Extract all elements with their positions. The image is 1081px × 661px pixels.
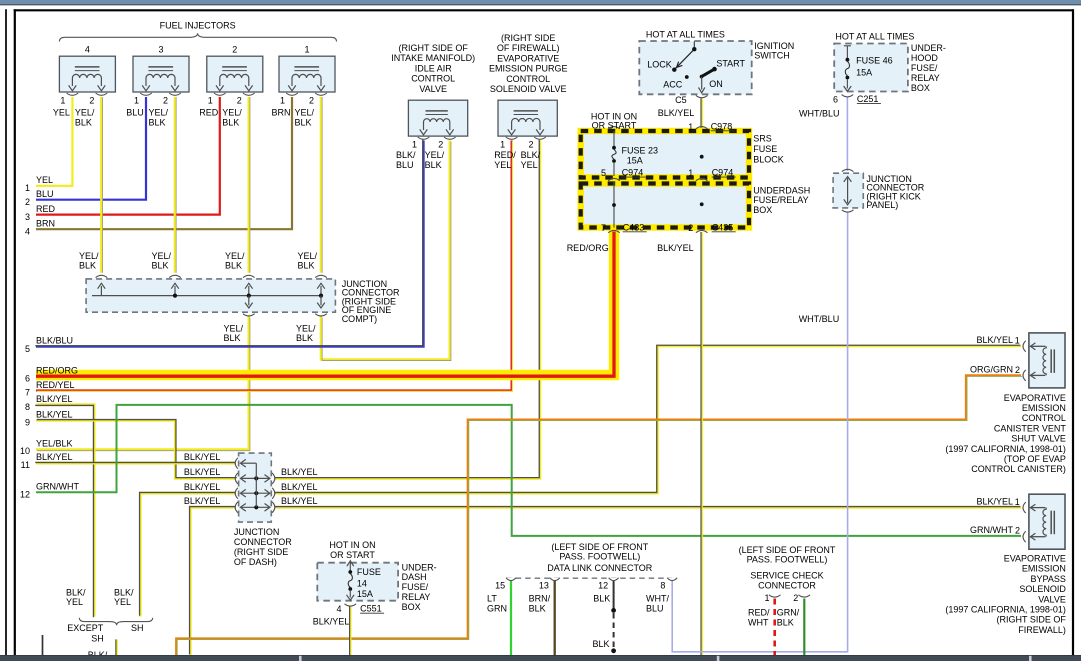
label IGNITION SWITCH: [754, 41, 794, 60]
wire BRN/BLK DLC pin 13: [553, 581, 556, 656]
svg-text:2: 2: [25, 197, 30, 207]
svg-text:8: 8: [25, 402, 30, 412]
label SRS FUSE BLOCK: [753, 133, 784, 164]
svg-text:(RIGHT SIDE: (RIGHT SIDE: [501, 33, 555, 43]
svg-text:YEL/: YEL/: [298, 251, 318, 261]
svg-text:IDLE AIR: IDLE AIR: [415, 63, 453, 73]
underdash fuse/relay box: [581, 184, 749, 228]
svg-text:(RIGHT SIDE OF: (RIGHT SIDE OF: [997, 615, 1067, 625]
svg-text:VALVE: VALVE: [419, 84, 447, 94]
svg-text:BLK: BLK: [225, 261, 242, 271]
wire stub bottom left: [42, 635, 44, 655]
svg-text:C551: C551: [360, 604, 382, 614]
wire BLK/YEL C551 down: [348, 606, 351, 656]
svg-text:14: 14: [357, 578, 367, 588]
labels service check wire colors: [748, 608, 800, 628]
svg-text:RED/ORG: RED/ORG: [36, 366, 78, 376]
svg-text:BLK/BLU: BLK/BLU: [36, 336, 73, 346]
wire YEL/BLK injector4 pin2 to junction: [101, 97, 102, 273]
svg-text:YEL: YEL: [494, 160, 511, 170]
labels fuse 23: [622, 145, 659, 165]
wire BLK/YEL dash junction to purge valve pin 2: [274, 140, 540, 479]
label UNDERDASH FUSE/RELAY BOX: [753, 185, 810, 215]
labels DLC pins: [495, 580, 665, 590]
svg-text:EVAPORATIVE: EVAPORATIVE: [497, 53, 559, 63]
diagram frame left border: [14, 9, 16, 655]
svg-text:2: 2: [163, 96, 168, 106]
svg-text:1: 1: [134, 96, 139, 106]
svg-text:EXCEPT: EXCEPT: [67, 623, 104, 633]
svg-text:2: 2: [232, 44, 237, 54]
SRS right wire connectors: [696, 127, 708, 233]
data link connector: [506, 578, 677, 581]
svg-text:5: 5: [25, 344, 30, 354]
svg-text:1: 1: [500, 140, 505, 150]
svg-text:4: 4: [85, 44, 90, 54]
svg-text:2: 2: [528, 140, 533, 150]
svg-text:6: 6: [25, 374, 30, 384]
svg-text:FUSE: FUSE: [357, 567, 381, 577]
labels DLC wire colors: [487, 594, 669, 614]
svg-text:FUSE 23: FUSE 23: [622, 145, 659, 155]
svg-text:CANISTER VENT: CANISTER VENT: [994, 423, 1067, 433]
svg-text:BOX: BOX: [402, 602, 421, 612]
svg-text:SH: SH: [91, 634, 104, 644]
svg-text:C974: C974: [712, 168, 734, 178]
svg-text:1: 1: [60, 96, 65, 106]
svg-text:4: 4: [336, 604, 341, 614]
svg-text:BLK: BLK: [295, 118, 312, 128]
svg-text:WHT: WHT: [748, 618, 769, 628]
svg-text:C978: C978: [711, 121, 733, 131]
svg-text:CONTROL: CONTROL: [506, 74, 550, 84]
svg-text:UNDER-: UNDER-: [911, 43, 946, 53]
label UNDER-HOOD FUSE/RELAY BOX: [911, 43, 946, 93]
labels IAC wire colors: [396, 150, 445, 170]
svg-text:C435: C435: [712, 222, 734, 232]
connector C551: [360, 604, 384, 614]
svg-text:1: 1: [304, 44, 309, 54]
evap bypass solenoid valve: [1023, 494, 1065, 549]
svg-text:3: 3: [25, 212, 30, 222]
svg-text:DASH: DASH: [402, 572, 427, 582]
fuse 23 and SRS left wire: [608, 127, 620, 233]
labels injector 3 wire colors: [126, 107, 168, 127]
svg-text:UNDERDASH: UNDERDASH: [753, 185, 810, 195]
wire BLK/YEL ignition C5 to C978: [700, 98, 703, 129]
wire BLK/YEL C435 down to bottom: [700, 232, 703, 655]
svg-text:BLK: BLK: [222, 118, 239, 128]
labels fuse 14: [357, 567, 381, 599]
connector C978: [711, 121, 735, 131]
svg-text:YEL/: YEL/: [296, 323, 316, 333]
svg-text:ON: ON: [709, 79, 723, 89]
svg-text:2: 2: [1015, 365, 1020, 375]
svg-text:RELAY: RELAY: [911, 73, 940, 83]
svg-text:RED/: RED/: [748, 608, 770, 618]
wire YEL/BLK injector2 pin2 to junction: [249, 97, 250, 273]
svg-text:BLU: BLU: [126, 107, 144, 117]
svg-text:WHT/BLU: WHT/BLU: [799, 108, 840, 118]
svg-text:RED: RED: [36, 204, 56, 214]
svg-text:ORG/GRN: ORG/GRN: [970, 365, 1013, 375]
svg-text:RED/ORG: RED/ORG: [567, 243, 609, 253]
svg-text:YEL/: YEL/: [224, 323, 244, 333]
label junction connector right side of dash: [234, 527, 292, 567]
bottom dark bar: [0, 655, 1081, 661]
svg-text:YEL/: YEL/: [425, 150, 445, 160]
svg-text:BLK/: BLK/: [521, 150, 541, 160]
svg-text:1: 1: [280, 96, 285, 106]
wire BLK/YEL dash junction to bypass valve pin 1: [274, 505, 1021, 508]
wire GRN/WHT row 12 to bypass valve pin 2: [36, 405, 1021, 536]
wire BLK/YEL row 8 to brace: [35, 405, 94, 618]
svg-text:RED/YEL: RED/YEL: [36, 380, 75, 390]
svg-text:OF FIREWALL): OF FIREWALL): [497, 43, 560, 53]
svg-text:YEL/: YEL/: [79, 251, 99, 261]
svg-text:7: 7: [25, 388, 30, 398]
svg-text:(1997 CALIFORNIA, 1998-01): (1997 CALIFORNIA, 1998-01): [945, 605, 1066, 615]
svg-text:12: 12: [20, 489, 30, 499]
svg-text:PASS. FOOTWELL): PASS. FOOTWELL): [747, 554, 828, 564]
svg-text:BLK/YEL: BLK/YEL: [976, 335, 1013, 345]
svg-text:15A: 15A: [627, 155, 643, 165]
svg-text:CONNECTOR: CONNECTOR: [234, 537, 292, 547]
junction connector engine compartment: [86, 275, 335, 316]
labels EXCEPT SH: [67, 623, 143, 643]
labels BLK/YEL above brace: [66, 587, 134, 607]
svg-text:OF DASH): OF DASH): [234, 557, 277, 567]
svg-text:BLK: BLK: [296, 333, 313, 343]
svg-text:C5: C5: [675, 95, 687, 105]
svg-text:CONTROL: CONTROL: [411, 74, 455, 84]
svg-text:2: 2: [89, 96, 94, 106]
svg-text:SH: SH: [131, 623, 144, 633]
svg-text:PASS. FOOTWELL): PASS. FOOTWELL): [559, 551, 640, 561]
svg-text:YEL/: YEL/: [149, 107, 169, 117]
fuel injector 1: [279, 44, 335, 105]
svg-text:BLK/: BLK/: [66, 587, 86, 597]
svg-text:WHT/BLU: WHT/BLU: [799, 314, 840, 324]
svg-text:BLK/YEL: BLK/YEL: [36, 452, 73, 462]
node row 8 BLK/YEL: [25, 394, 73, 412]
wire BLU injector3 pin1 to row 2: [36, 97, 146, 200]
evap canister vent shut valve: [1023, 333, 1065, 388]
svg-text:BLK: BLK: [149, 118, 166, 128]
svg-text:SRS: SRS: [753, 133, 772, 143]
node row 7 RED/YEL: [25, 380, 75, 398]
svg-text:2: 2: [237, 96, 242, 106]
wire GRN/BLK service check pin 2: [803, 599, 805, 656]
svg-text:INTAKE MANIFOLD): INTAKE MANIFOLD): [391, 53, 475, 63]
svg-text:15A: 15A: [357, 589, 373, 599]
svg-text:YEL/: YEL/: [222, 107, 242, 117]
label SERVICE CHECK CONNECTOR: [750, 570, 823, 590]
diagram frame right border: [1072, 9, 1074, 655]
svg-text:(TOP OF EVAP: (TOP OF EVAP: [1004, 454, 1066, 464]
svg-text:2: 2: [793, 593, 798, 603]
wire WHT/BLU C251 to kick junction: [846, 97, 848, 172]
svg-text:YEL: YEL: [521, 160, 538, 170]
svg-text:START: START: [716, 59, 745, 69]
svg-text:11: 11: [21, 460, 30, 470]
under-dash fuse 14 box: [317, 561, 398, 606]
svg-text:RED: RED: [199, 107, 219, 117]
label UNDER-DASH FUSE/RELAY BOX: [402, 562, 437, 612]
svg-text:BLK: BLK: [152, 261, 169, 271]
svg-text:1: 1: [764, 593, 769, 603]
labels injector 1 wire colors: [271, 107, 314, 127]
svg-text:6: 6: [833, 95, 838, 105]
labels ignition positions: [647, 59, 745, 90]
svg-text:C433: C433: [623, 222, 645, 232]
svg-text:BLU: BLU: [646, 604, 664, 614]
svg-text:OR START: OR START: [592, 121, 637, 131]
svg-text:BLU: BLU: [36, 189, 54, 199]
svg-text:BLK: BLK: [75, 118, 92, 128]
svg-text:BRN: BRN: [271, 107, 290, 117]
svg-text:YEL/: YEL/: [75, 107, 95, 117]
svg-text:FUSE/: FUSE/: [911, 63, 938, 73]
svg-text:BLU: BLU: [396, 160, 414, 170]
junction connector right kick panel: [833, 169, 863, 212]
svg-text:LT: LT: [487, 594, 497, 604]
svg-text:GRN: GRN: [487, 604, 507, 614]
svg-text:YEL/: YEL/: [295, 107, 315, 117]
svg-text:COMPT): COMPT): [342, 314, 378, 324]
fuel injector 4: [59, 44, 115, 105]
under-hood fuse 46 box: [834, 44, 908, 97]
svg-text:BLK: BLK: [79, 261, 96, 271]
svg-text:12: 12: [598, 580, 608, 590]
svg-text:5: 5: [601, 168, 606, 178]
connector C251: [857, 94, 881, 104]
node row 2 BLU: [25, 189, 54, 207]
wire ORG/GRN vent valve pin 2 route: [176, 375, 1022, 656]
svg-text:BLK/YEL: BLK/YEL: [184, 496, 221, 506]
fuel injector 3: [133, 44, 189, 105]
svg-text:1: 1: [688, 168, 693, 178]
connector C974 right: [712, 168, 736, 178]
svg-text:EMISSION PURGE: EMISSION PURGE: [489, 64, 568, 74]
label data link connector: [551, 542, 648, 561]
wire RED/ORG core C433 to row 6: [36, 232, 614, 377]
svg-text:FIREWALL): FIREWALL): [1018, 625, 1066, 635]
svg-text:GRN/WHT: GRN/WHT: [970, 525, 1013, 535]
svg-text:C251: C251: [857, 94, 879, 104]
wire BLK DLC pin 12 with splice: [611, 581, 616, 654]
wire YEL injector4 pin1 to row 1: [36, 97, 72, 186]
svg-text:1: 1: [688, 122, 693, 132]
svg-text:SWITCH: SWITCH: [754, 50, 790, 60]
svg-text:4: 4: [25, 226, 30, 236]
labels injector 2 wire colors: [199, 107, 242, 127]
node row 12 GRN/WHT: [20, 482, 80, 500]
ignition switch: [639, 41, 751, 98]
wire BLK/BLU row 5 to IAC valve pin 1: [35, 140, 423, 347]
svg-text:BLK: BLK: [593, 639, 610, 649]
svg-text:10: 10: [20, 446, 30, 456]
label YEL/BLK junction entry: [79, 251, 99, 271]
svg-text:BLK/YEL: BLK/YEL: [281, 467, 318, 477]
svg-text:EVAPORATIVE: EVAPORATIVE: [1004, 393, 1066, 403]
svg-text:BRN: BRN: [36, 219, 55, 229]
evap purge control solenoid valve: [498, 100, 557, 149]
svg-text:CONTROL: CONTROL: [1022, 413, 1066, 423]
svg-text:GRN/WHT: GRN/WHT: [36, 482, 79, 492]
svg-text:EMISSION: EMISSION: [1022, 564, 1066, 574]
svg-text:1: 1: [1015, 336, 1020, 346]
svg-text:FUEL INJECTORS: FUEL INJECTORS: [160, 21, 236, 31]
labels bypass valve pins: [970, 497, 1020, 536]
svg-text:BOX: BOX: [753, 205, 772, 215]
label YEL/BLK junction exit: [296, 323, 316, 343]
svg-text:2: 2: [438, 140, 443, 150]
wire BRN injector1 pin1 to row 4: [36, 97, 292, 229]
svg-text:BRN/: BRN/: [529, 594, 551, 604]
svg-text:15: 15: [495, 580, 505, 590]
wire RED/WHT service check pin 1: [773, 599, 776, 656]
svg-text:FUSE/: FUSE/: [402, 582, 429, 592]
svg-text:YEL: YEL: [36, 175, 53, 185]
svg-text:BOX: BOX: [911, 83, 930, 93]
label junction connector engine compartment: [342, 279, 400, 324]
label HOT IN ON OR START: [591, 112, 637, 131]
connector C974 left: [622, 168, 646, 178]
label idle air control valve: [391, 43, 475, 94]
svg-text:2: 2: [688, 223, 693, 233]
svg-text:BLK/YEL: BLK/YEL: [36, 410, 73, 420]
svg-text:BLK/: BLK/: [114, 587, 134, 597]
svg-text:BLK: BLK: [777, 618, 794, 628]
svg-text:BLK/YEL: BLK/YEL: [657, 243, 694, 253]
svg-text:YEL/: YEL/: [152, 251, 172, 261]
svg-text:JUNCTION: JUNCTION: [234, 527, 280, 537]
svg-text:1: 1: [208, 96, 213, 106]
wire LT GRN DLC pin 15: [510, 581, 512, 656]
svg-text:HOT IN ON: HOT IN ON: [329, 540, 375, 550]
svg-text:UNDER-: UNDER-: [402, 562, 437, 572]
wire BLK/YEL row 11 to dash junction: [35, 461, 236, 464]
brace except-SH: [79, 618, 152, 625]
svg-text:WHT/: WHT/: [646, 594, 669, 604]
svg-text:(RIGHT SIDE OF: (RIGHT SIDE OF: [399, 43, 469, 53]
svg-text:YEL/: YEL/: [225, 251, 245, 261]
wire RED/YEL row 7 to purge valve pin 1: [36, 141, 512, 392]
svg-text:3: 3: [158, 44, 163, 54]
svg-text:SHUT VALVE: SHUT VALVE: [1011, 434, 1066, 444]
svg-text:LOCK: LOCK: [647, 60, 672, 70]
svg-text:YEL: YEL: [66, 597, 83, 607]
svg-text:PANEL): PANEL): [866, 200, 898, 210]
label YEL/BLK junction entry: [152, 251, 172, 271]
svg-text:ACC: ACC: [663, 80, 683, 90]
node row 11 BLK/YEL: [21, 452, 73, 470]
wire BLK/YEL bottom to dash junction row 4: [190, 507, 236, 655]
wire BLK/YEL dash junction to vent valve pin 1: [274, 345, 1021, 493]
svg-text:15A: 15A: [856, 68, 872, 78]
svg-text:BLOCK: BLOCK: [753, 155, 784, 165]
svg-text:SERVICE CHECK: SERVICE CHECK: [750, 570, 823, 580]
diagram frame top border: [14, 9, 1074, 11]
svg-text:BLK/YEL: BLK/YEL: [281, 496, 318, 506]
service check connector: [769, 595, 810, 597]
junction connector right side of dash: [235, 453, 275, 522]
idle air control valve: [408, 100, 467, 149]
SRS fuse block box: [581, 131, 749, 178]
svg-text:VALVE: VALVE: [1038, 594, 1066, 604]
svg-text:BLK/YEL: BLK/YEL: [281, 482, 318, 492]
wire WHT/BLU kick junction to DLC pin 8: [672, 212, 847, 652]
svg-text:FUSE: FUSE: [753, 144, 777, 154]
svg-text:EVAPORATIVE: EVAPORATIVE: [1004, 554, 1066, 564]
label junction connector right kick panel: [866, 174, 924, 210]
svg-text:BLK: BLK: [529, 604, 546, 614]
svg-text:BYPASS: BYPASS: [1031, 574, 1066, 584]
label HOT IN ON OR START fuse 14: [329, 540, 375, 560]
svg-text:DATA LINK CONNECTOR: DATA LINK CONNECTOR: [547, 563, 653, 573]
svg-text:BLK/YEL: BLK/YEL: [976, 497, 1013, 507]
node row 4 BRN: [25, 219, 55, 237]
left page-edge line: [5, 9, 7, 655]
svg-text:BLK/YEL: BLK/YEL: [36, 394, 73, 404]
connector C435: [712, 222, 736, 232]
svg-text:1: 1: [412, 140, 417, 150]
svg-text:YEL: YEL: [114, 597, 131, 607]
svg-text:BLK: BLK: [224, 333, 241, 343]
wire YEL/BLK injector3 pin2 to junction: [175, 97, 176, 273]
svg-text:BLK/YEL: BLK/YEL: [184, 452, 221, 462]
node row 1 YEL: [25, 175, 53, 193]
label YEL/BLK junction entry: [298, 251, 318, 271]
svg-text:SOLENOID: SOLENOID: [1019, 584, 1066, 594]
svg-text:7: 7: [601, 223, 606, 233]
svg-text:BLK/YEL: BLK/YEL: [184, 467, 221, 477]
wire BLK/YEL SH to dash junction row 3: [140, 492, 236, 616]
labels fuse 46: [856, 56, 893, 78]
svg-text:BLK/YEL: BLK/YEL: [658, 108, 695, 118]
wire BLK/YEL brace stub: [115, 639, 118, 655]
labels service check pins: [764, 593, 798, 603]
wire RED injector2 pin1 to row 3: [36, 97, 220, 215]
svg-text:1: 1: [1015, 497, 1020, 507]
node row 5 BLK/BLU: [25, 336, 73, 354]
svg-text:HOT AT ALL TIMES: HOT AT ALL TIMES: [835, 31, 914, 41]
svg-text:2: 2: [309, 96, 314, 106]
svg-text:OR START: OR START: [330, 550, 375, 560]
labels purge valve wire colors: [494, 150, 540, 170]
wire BLK/YEL row 9 to dash junction: [36, 420, 237, 479]
svg-text:YEL/BLK: YEL/BLK: [36, 438, 73, 448]
label evap canister vent shut valve: [945, 393, 1066, 474]
svg-text:BLK/YEL: BLK/YEL: [184, 482, 221, 492]
svg-text:GRN/: GRN/: [777, 608, 800, 618]
label evap bypass solenoid valve: [945, 554, 1066, 635]
labels injector 4 wire colors: [53, 107, 95, 127]
svg-text:BLK/YEL: BLK/YEL: [313, 617, 350, 627]
wire BLK/YEL through SRS and underdash boxes: [700, 131, 702, 228]
label YEL/BLK junction exit: [224, 323, 244, 343]
wire YEL/BLK junction to IAC valve pin 2: [321, 141, 451, 361]
node row 6 RED/ORG: [25, 366, 78, 384]
svg-text:8: 8: [660, 580, 665, 590]
label evap purge control solenoid valve: [489, 33, 568, 94]
node row 10 YEL/BLK: [20, 438, 73, 456]
svg-text:YEL: YEL: [53, 107, 70, 117]
svg-text:HOOD: HOOD: [911, 53, 939, 63]
svg-text:(1997 CALIFORNIA, 1998-01): (1997 CALIFORNIA, 1998-01): [945, 444, 1066, 454]
svg-text:1: 1: [25, 183, 30, 193]
